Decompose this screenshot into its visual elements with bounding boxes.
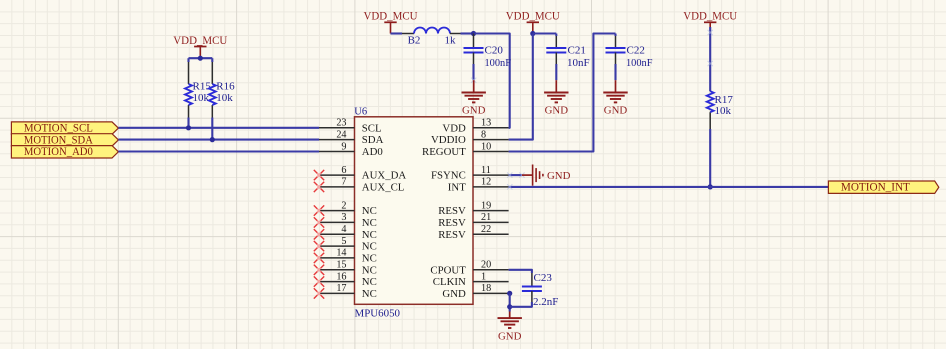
svg-text:VDD_MCU: VDD_MCU — [506, 9, 560, 23]
svg-text:NC: NC — [362, 276, 377, 288]
svg-text:VDD_MCU: VDD_MCU — [364, 9, 418, 23]
wire node to pin13 VDD — [474, 34, 510, 128]
svg-text:MOTION_SCL: MOTION_SCL — [24, 123, 93, 135]
svg-text:17: 17 — [336, 283, 346, 294]
node pin18/gnd — [507, 291, 512, 296]
resistor R15 — [185, 84, 192, 105]
svg-text:NC: NC — [362, 288, 377, 300]
svg-text:2: 2 — [341, 200, 346, 211]
wire to bead — [391, 32, 403, 34]
node C23 return — [507, 304, 512, 309]
svg-text:3: 3 — [341, 212, 346, 223]
pin 7 AUX_CL (left) — [319, 186, 355, 188]
svg-text:GND: GND — [604, 105, 628, 117]
svg-text:MPU6050: MPU6050 — [355, 309, 401, 320]
power VDD_MCU (ferrite input) — [384, 21, 396, 23]
svg-text:NC: NC — [362, 252, 377, 264]
pin 3 NC (left) — [319, 221, 355, 223]
pin 13 VDD (right) — [473, 127, 509, 129]
resistor R15 leads — [187, 58, 189, 62]
svg-text:VDDIO: VDDIO — [431, 134, 466, 146]
svg-text:100nF: 100nF — [626, 57, 653, 69]
svg-text:7: 7 — [341, 177, 346, 188]
svg-text:CPOUT: CPOUT — [430, 264, 466, 276]
port MOTION_SCL — [11, 122, 118, 134]
svg-text:GND: GND — [442, 288, 466, 300]
svg-text:9: 9 — [341, 141, 346, 152]
svg-text:CLKIN: CLKIN — [433, 276, 466, 288]
resistor R16 — [209, 84, 216, 105]
svg-text:16: 16 — [336, 271, 346, 282]
wire INT to MOTION_INT — [509, 186, 829, 188]
svg-text:C23: C23 — [534, 272, 553, 284]
no-ERC marker pin 6 — [314, 170, 324, 180]
svg-text:14: 14 — [336, 248, 346, 259]
node VDD_MCU/R15/R16 junction — [198, 56, 203, 61]
svg-text:21: 21 — [481, 212, 491, 223]
svg-text:18: 18 — [481, 283, 491, 294]
wire pin18 GND — [509, 292, 510, 294]
no-ERC marker pin 7 — [314, 182, 324, 192]
resistor R17 lower lead — [709, 112, 711, 129]
wire MOTION_SCL — [118, 127, 319, 129]
op-amp U1 body (IC U6 MPU6050) — [355, 117, 474, 304]
pin 4 NC (left) — [319, 233, 355, 235]
svg-text:AUX_DA: AUX_DA — [362, 170, 407, 182]
pin 22 RESV (right) — [473, 233, 509, 235]
svg-text:RESV: RESV — [438, 217, 466, 229]
svg-text:AUX_CL: AUX_CL — [362, 181, 405, 193]
pin 1 CLKIN (right) — [473, 281, 509, 283]
pin 14 NC (left) — [319, 257, 355, 259]
svg-text:11: 11 — [481, 165, 491, 176]
svg-text:24: 24 — [336, 129, 346, 140]
svg-text:8: 8 — [481, 129, 486, 140]
pin 18 GND (right) — [473, 292, 509, 294]
power VDD_MCU (INT pull-up) — [704, 21, 716, 23]
pin 15 NC (left) — [319, 269, 355, 271]
pin 16 NC (left) — [319, 281, 355, 283]
wire gnd vertical — [509, 293, 511, 311]
no-ERC marker pin 5 — [314, 241, 324, 251]
wire MOTION_AD0 — [118, 150, 319, 152]
pin 2 NC (left) — [319, 210, 355, 212]
svg-text:C20: C20 — [485, 45, 504, 57]
svg-text:MOTION_SDA: MOTION_SDA — [24, 134, 94, 146]
svg-text:1k: 1k — [445, 35, 457, 47]
capacitor C22 — [614, 34, 616, 37]
svg-text:R15: R15 — [193, 81, 212, 93]
svg-text:VDD_MCU: VDD_MCU — [173, 33, 227, 47]
pin 10 REGOUT (right) — [473, 151, 509, 153]
wire C22 to ground — [614, 64, 616, 80]
wire VDDIO down to pin 8 — [509, 34, 533, 140]
wire MOTION_SDA — [118, 139, 319, 141]
svg-text:VDD_MCU: VDD_MCU — [683, 9, 737, 23]
svg-text:RESV: RESV — [438, 205, 466, 217]
svg-text:15: 15 — [336, 260, 346, 271]
svg-text:6: 6 — [341, 165, 346, 176]
no-ERC marker pin 3 — [314, 217, 324, 227]
svg-text:SDA: SDA — [362, 134, 384, 146]
wire REGOUT to C22 — [509, 34, 616, 152]
svg-text:FSYNC: FSYNC — [431, 170, 466, 182]
svg-text:NC: NC — [362, 241, 377, 253]
svg-text:1: 1 — [481, 271, 486, 282]
svg-text:10: 10 — [481, 141, 491, 152]
power VDD_MCU (R15/R16 pull-ups) — [194, 46, 206, 48]
capacitor C20 — [473, 34, 475, 49]
svg-text:23: 23 — [336, 118, 346, 129]
svg-text:10nF: 10nF — [567, 57, 590, 69]
svg-text:AD0: AD0 — [362, 146, 383, 158]
svg-text:100nF: 100nF — [485, 57, 512, 69]
pin 17 NC (left) — [319, 292, 355, 294]
wire CPOUT to C23 — [509, 270, 532, 273]
svg-text:SCL: SCL — [362, 122, 382, 134]
capacitor C23 — [531, 273, 533, 287]
svg-text:R16: R16 — [216, 81, 235, 93]
svg-text:10k: 10k — [216, 92, 233, 104]
wire VDD to R17 — [709, 27, 711, 91]
svg-text:REGOUT: REGOUT — [422, 146, 466, 158]
pin 11 FSYNC (right) — [473, 174, 509, 176]
svg-text:B2: B2 — [408, 35, 421, 47]
svg-text:MOTION_AD0: MOTION_AD0 — [24, 146, 93, 158]
svg-text:19: 19 — [481, 200, 491, 211]
node R17/INT — [708, 184, 713, 189]
svg-text:NC: NC — [362, 229, 377, 241]
svg-text:RESV: RESV — [438, 229, 466, 241]
svg-text:INT: INT — [448, 181, 466, 193]
svg-text:NC: NC — [362, 205, 377, 217]
svg-text:22: 22 — [481, 224, 491, 235]
wire to C21 — [533, 32, 557, 34]
svg-text:5: 5 — [341, 236, 346, 247]
pin 6 AUX_DA (left) — [319, 174, 355, 176]
wire R15-R16 top rail — [189, 57, 213, 59]
no-ERC marker pin 17 — [314, 288, 324, 298]
pin 9 AD0 (left) — [319, 151, 355, 153]
no-ERC marker pin 2 — [314, 205, 324, 215]
wire bead to node — [461, 32, 474, 34]
pin 21 RESV (right) — [473, 221, 509, 223]
svg-text:VDD: VDD — [442, 122, 466, 134]
svg-text:13: 13 — [481, 118, 491, 129]
no-ERC marker pin 15 — [314, 265, 324, 275]
svg-text:20: 20 — [481, 260, 491, 271]
svg-text:10k: 10k — [715, 105, 732, 117]
svg-text:GND: GND — [462, 105, 486, 117]
power VDD_MCU (VDDIO) — [527, 21, 539, 23]
resistor R16 leads — [211, 58, 213, 62]
svg-text:12: 12 — [481, 177, 491, 188]
svg-text:C22: C22 — [627, 45, 645, 57]
ground GND (C21) — [555, 80, 557, 92]
node VDDIO net — [530, 31, 535, 36]
svg-text:C21: C21 — [568, 45, 586, 57]
capacitor C21 — [555, 34, 557, 37]
pin 5 NC (left) — [319, 245, 355, 247]
ground GND (pin 18) — [509, 312, 511, 319]
wire FSYNC to ground — [509, 174, 522, 176]
wire C20 to ground — [472, 64, 474, 80]
resistor R17 — [707, 91, 714, 112]
pin 24 SDA (left) — [319, 139, 355, 141]
svg-text:U6: U6 — [354, 106, 367, 117]
node SDA/R16 — [210, 137, 215, 142]
no-ERC marker pin 14 — [314, 253, 324, 263]
node VDD net — [471, 31, 476, 36]
port MOTION_INT — [828, 181, 938, 193]
wire R17 to INT — [709, 129, 711, 187]
no-ERC marker pin 16 — [314, 276, 324, 286]
wire C23 to gnd node — [510, 302, 532, 307]
pin 8 VDDIO (right) — [473, 139, 509, 141]
svg-text:4: 4 — [341, 224, 346, 235]
ground GND (FSYNC) sideways — [522, 174, 533, 176]
svg-text:NC: NC — [362, 217, 377, 229]
svg-text:2.2nF: 2.2nF — [533, 296, 558, 308]
pin 12 INT (right) — [473, 186, 509, 188]
port MOTION_SDA — [11, 134, 118, 146]
port MOTION_AD0 — [11, 146, 118, 158]
node SCL/R15 — [186, 125, 191, 130]
ground GND (C22) — [615, 80, 617, 92]
svg-text:MOTION_INT: MOTION_INT — [841, 182, 910, 194]
pin 20 CPOUT (right) — [473, 269, 509, 271]
pin 19 RESV (right) — [473, 210, 509, 212]
inductor B2 1k — [402, 33, 414, 35]
svg-text:GND: GND — [547, 170, 571, 182]
svg-text:GND: GND — [545, 105, 569, 117]
svg-text:NC: NC — [362, 264, 377, 276]
no-ERC marker pin 4 — [314, 229, 324, 239]
wire C21 to ground — [555, 64, 557, 80]
ground GND (C20) — [473, 80, 475, 92]
pin 23 SCL (left) — [319, 127, 355, 129]
svg-text:10k: 10k — [193, 92, 210, 104]
svg-text:GND: GND — [498, 330, 522, 342]
